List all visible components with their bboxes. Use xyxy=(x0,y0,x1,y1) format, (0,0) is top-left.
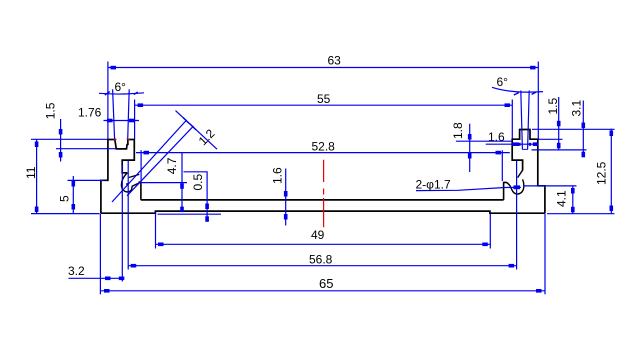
dim 55 ext left xyxy=(134,100,136,140)
slot bottom ext (1.5 left) xyxy=(56,148,116,150)
right boss center dot xyxy=(517,186,519,188)
leader 2-phi1.7 underline xyxy=(416,187,521,190)
red fillet mark left slot left corner xyxy=(114,138,117,140)
arrow 4.7 bottom xyxy=(180,207,184,213)
left wall lower inner face to floor xyxy=(139,182,141,200)
arrow 1.6 right outer-left xyxy=(513,142,519,146)
slash arrow left arc b xyxy=(134,92,138,95)
dim 56.8 ext right xyxy=(516,161,518,270)
svg-text:49: 49 xyxy=(311,228,325,242)
right screw boss C-shape xyxy=(506,179,523,194)
arrow 1.8 bottom xyxy=(468,153,472,159)
arrow 12.5 bottom xyxy=(610,206,614,212)
arrow 11 bottom xyxy=(35,207,39,213)
dim 65 ext right xyxy=(544,214,546,295)
svg-text:55: 55 xyxy=(317,92,331,106)
arrow 49 left xyxy=(158,243,164,247)
shoulder ext right (1.5) xyxy=(539,138,563,140)
right tab 6-degree slot (thin) xyxy=(522,148,528,150)
svg-text:5: 5 xyxy=(58,195,72,202)
arrow 5 top xyxy=(72,181,76,187)
svg-text:56.8: 56.8 xyxy=(309,253,333,267)
arrow 65 left xyxy=(104,289,110,293)
dim 55 line xyxy=(135,104,513,106)
arrow 63 left xyxy=(111,66,117,70)
dim 63 ext right xyxy=(537,62,539,140)
dim 63 ext left xyxy=(107,62,109,140)
arrow 11 top xyxy=(35,142,39,148)
svg-text:12.5: 12.5 xyxy=(595,161,609,185)
dim 3.2 line xyxy=(69,277,123,279)
right wall lower inner face xyxy=(504,182,507,200)
right wall outline with tab xyxy=(512,130,545,214)
left boss finger upper lip xyxy=(129,174,139,177)
arrow 1.76 left (outside) xyxy=(107,119,113,123)
slash arrow right arc a xyxy=(514,93,519,95)
red center line of profile xyxy=(323,160,325,228)
slash arrow right arc b xyxy=(532,92,536,94)
svg-text:3.2: 3.2 xyxy=(68,264,85,278)
arrow 3.2 left xyxy=(105,277,111,281)
dim 63 line xyxy=(108,67,538,69)
red fillet mark left slot right corner xyxy=(127,138,130,140)
svg-text:52.8: 52.8 xyxy=(312,140,336,154)
arrow 56.8 right xyxy=(509,264,514,268)
svg-text:63: 63 xyxy=(328,54,342,68)
svg-text:1.6: 1.6 xyxy=(488,130,505,144)
dim 65 ext left xyxy=(99,214,101,295)
dim 5 line xyxy=(72,176,74,214)
arrow 12.5 top xyxy=(610,131,614,137)
arrow 4.1 top xyxy=(571,188,575,194)
dim 52.8 ext right xyxy=(501,150,503,181)
svg-text:3.1: 3.1 xyxy=(570,99,584,116)
dim 56.8 ext left xyxy=(127,161,129,270)
right slot taper ext right xyxy=(528,91,530,150)
dim 4.7 line xyxy=(181,153,183,211)
right 6-degree arc xyxy=(492,87,543,92)
arrow 0.5 top xyxy=(205,204,209,210)
bottom outer surface with shallow recess xyxy=(101,211,545,213)
left screw boss C-shape xyxy=(121,173,140,192)
channel floor xyxy=(141,199,504,201)
arrow 65 right xyxy=(536,289,542,293)
recess bottom blue ext xyxy=(158,213,221,215)
bottom ext right (12.5/4.1) xyxy=(547,213,615,215)
arrow 55 right xyxy=(505,103,511,107)
svg-text:4.1: 4.1 xyxy=(555,190,569,207)
dim 55 ext right xyxy=(511,100,513,139)
arrow 1.76 right (outside) xyxy=(129,119,135,123)
svg-text:4.7: 4.7 xyxy=(165,157,179,174)
arrow 5 bottom xyxy=(72,204,76,210)
slot bottom ext right (3.1) xyxy=(532,149,587,151)
left slot taper ext right xyxy=(128,89,130,139)
left slot taper ext left xyxy=(113,89,115,139)
arrow leader phi1.7 xyxy=(514,185,521,189)
svg-text:1.6: 1.6 xyxy=(271,167,285,184)
arrow 3.2 right xyxy=(119,277,125,281)
dim 4.1 line xyxy=(572,186,574,214)
wall top ext long (for 11/1.5/63) xyxy=(31,138,108,140)
arrow 4.1 bottom xyxy=(571,207,575,213)
arrow 1.5 left top xyxy=(59,129,63,135)
arrow 0.5 bottom xyxy=(205,216,209,222)
arrow 63 right xyxy=(530,66,536,70)
dim 56.8 line xyxy=(128,265,516,267)
arrow 1.6 center bottom xyxy=(284,214,288,220)
right slot taper ext left xyxy=(521,91,523,150)
dim 1.2 dimension segment xyxy=(176,111,218,150)
arrow 55 left xyxy=(138,103,144,107)
dim 3.2 ext right xyxy=(121,165,123,282)
arrow 4.7 top xyxy=(180,183,184,189)
dim 49 ext right xyxy=(489,214,491,249)
arrow 1.5 right bottom xyxy=(557,143,561,149)
dim 52.8 line xyxy=(136,152,510,154)
dim 52.8 ext left xyxy=(140,150,142,181)
arrow 1.8 top xyxy=(468,134,472,140)
arrow 52.8 right xyxy=(496,151,502,155)
slash arrow left arc a xyxy=(105,92,110,95)
slash arrow 1.2 upper xyxy=(183,118,189,124)
svg-text:6°: 6° xyxy=(497,75,509,89)
dim 1.6 right line xyxy=(486,143,539,145)
arrow 56.8 left xyxy=(131,264,137,268)
slash arrow 1.2 lower xyxy=(190,124,196,130)
dim 1.6 center line xyxy=(285,169,287,226)
arrow 3.1 top xyxy=(582,123,586,129)
dim 65 line xyxy=(100,290,545,292)
svg-text:1.8: 1.8 xyxy=(451,122,465,139)
svg-text:1.5: 1.5 xyxy=(44,102,58,119)
arrow 49 right xyxy=(482,243,488,247)
dim 1.5 left line xyxy=(60,119,62,162)
svg-text:1.5: 1.5 xyxy=(546,97,560,114)
svg-text:11: 11 xyxy=(24,166,38,179)
bottom ext left (11) xyxy=(31,213,100,215)
arrow 1.6 center top xyxy=(284,191,288,197)
dim 12.5 line xyxy=(610,129,612,214)
dim 1.76 line xyxy=(104,120,140,122)
dim 49 ext left xyxy=(155,213,157,249)
boss lip ext (4.7) xyxy=(140,182,187,184)
dim 1.5 right line xyxy=(558,97,560,150)
profile outline: left wall outer and top with screw slot xyxy=(101,140,134,214)
svg-text:1.76: 1.76 xyxy=(78,106,102,120)
wall step ext (4.1) xyxy=(523,185,577,187)
dim 3.1 line xyxy=(582,101,584,158)
dim 49 line xyxy=(156,243,491,245)
svg-text:2-φ1.7: 2-φ1.7 xyxy=(416,178,451,192)
dim 1.2 ext line lower xyxy=(127,126,194,196)
arrow 1.5 left bottom xyxy=(59,152,63,158)
tab top ext long (1.5/3.1/12.5) xyxy=(532,128,615,130)
left 6-degree arc xyxy=(99,93,144,94)
wall shoulder ext (1.8) xyxy=(456,140,512,142)
dim 0.5 line xyxy=(206,172,208,221)
arrow 1.5 right top xyxy=(557,121,561,127)
svg-text:65: 65 xyxy=(319,276,333,291)
arrow 3.1 bottom xyxy=(582,152,586,158)
arrow 1.6 right outer-right xyxy=(533,142,538,146)
svg-text:6°: 6° xyxy=(115,80,127,94)
tick 1.6 right at 530 xyxy=(529,143,531,146)
dim 11 line xyxy=(36,140,38,214)
svg-text:1.2: 1.2 xyxy=(196,126,218,148)
step ext (5) xyxy=(68,179,105,181)
dim 1.8 line xyxy=(469,124,471,172)
right boss neck diagonal xyxy=(518,170,523,177)
tick 1.6 right at 519.6 xyxy=(518,143,520,146)
arrow 52.8 left xyxy=(144,151,150,155)
svg-text:0.5: 0.5 xyxy=(191,173,205,190)
dim 1.2 ext line upper xyxy=(112,120,187,202)
left boss center dot xyxy=(126,183,128,185)
notch bottom ext (0.5) xyxy=(184,171,208,173)
